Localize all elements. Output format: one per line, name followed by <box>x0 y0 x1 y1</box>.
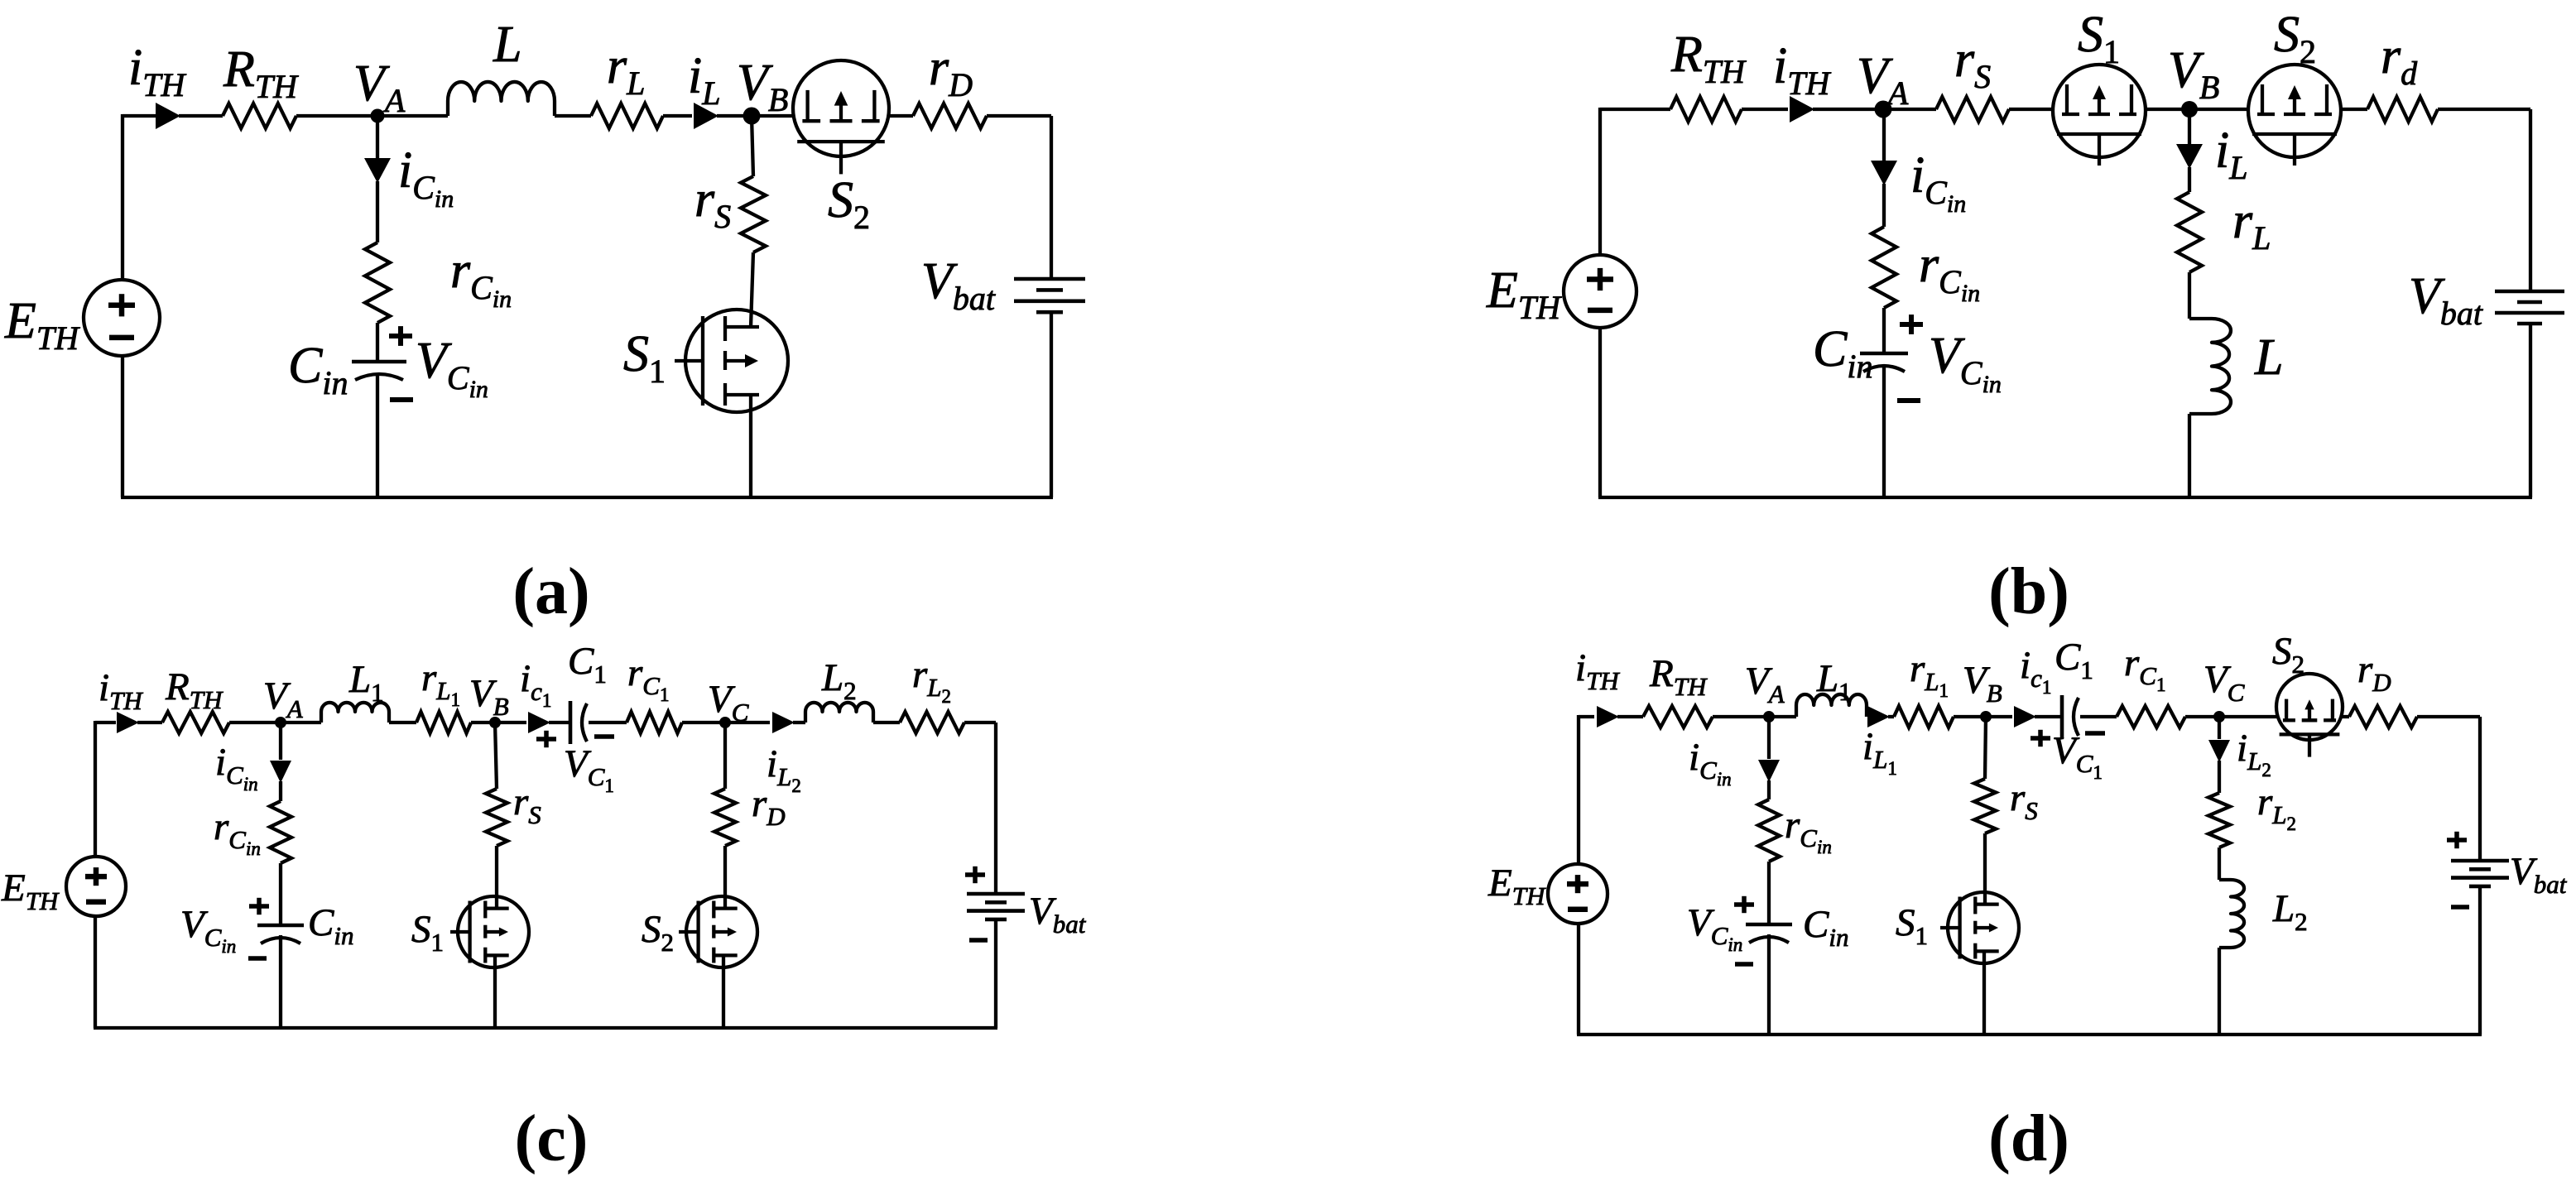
circuit (b) label r_L <box>2232 193 2271 257</box>
node V_A (d) <box>1763 711 1775 723</box>
circuit (c) label r_Cin <box>214 805 261 859</box>
circuit (d) wire: r_D to top-right corner <box>2417 715 2480 718</box>
circuit (d) wire: node C down <box>2218 717 2221 739</box>
circuit (d) label r_D <box>2357 648 2391 697</box>
circuit (c) label E_TH <box>1 867 60 915</box>
circuit (b) wire: r_L to L <box>2188 272 2191 319</box>
resistor r_S (c) <box>486 789 507 846</box>
resistor r_Cin (a) <box>365 242 390 323</box>
circuit (d) label L1 <box>1816 657 1852 706</box>
resistor r_L (a) <box>591 103 663 128</box>
circuit (a) wire: node A down <box>376 116 379 161</box>
circuit (b) wire: left vertical lower <box>1598 328 1602 497</box>
svg-text:L: L <box>2254 329 2283 386</box>
node V_C (c) <box>719 717 731 728</box>
circuit (b) label S1 <box>2078 7 2120 70</box>
circuit (d) label S2 <box>2272 630 2304 679</box>
resistor r_L2 (d) <box>2208 793 2230 847</box>
circuit (c) wire: arrow to R_TH <box>137 721 162 724</box>
resistor r_C1 (c) <box>627 712 682 733</box>
circuit (c) wire: r_S to S1 <box>495 846 498 907</box>
circuit (c) wire: right vertical upper <box>994 723 997 894</box>
circuit (d) wire: node B down to r_S <box>1985 717 1986 779</box>
circuit (b) label r_S <box>1954 31 1991 95</box>
circuit (b) label r_Cin <box>1919 237 1980 307</box>
circuit (c) C1 minus sign <box>594 734 614 739</box>
circuit (a) label V_A <box>353 55 406 119</box>
circuit (a) wire: top-left segment <box>123 114 156 118</box>
circuit (d) label r_S <box>2010 776 2038 825</box>
circuit (a) label r_L <box>607 38 645 102</box>
circuit (b) wire: node B down <box>2188 109 2191 145</box>
circuit (d) wire: left vertical lower <box>1577 924 1580 1035</box>
circuit (a) label r_Cin <box>450 242 512 313</box>
circuit (c) label i_L2 <box>767 742 801 796</box>
svg-text:(a): (a) <box>512 555 589 628</box>
circuit (d) current arrow i_c1 <box>2014 706 2036 727</box>
resistor R_TH (b) <box>1670 97 1742 122</box>
circuit (c) label i_TH <box>99 666 143 715</box>
circuit (c) label V_C <box>708 678 749 727</box>
capacitor C_in (c) <box>257 925 304 943</box>
node V_B (b) <box>2181 101 2198 118</box>
source E_TH (d) <box>1548 864 1608 924</box>
resistor r_D (c) <box>714 789 736 846</box>
circuit (c) label L1 <box>348 658 384 707</box>
circuit (b) wire: right vertical upper <box>2529 109 2532 291</box>
inductor L (a) <box>448 82 555 116</box>
circuit (d) wire: r_Cin to C_in <box>1767 862 1771 924</box>
circuit (c) wire: top-left segment <box>95 721 116 724</box>
resistor r_S (d) <box>1974 779 1996 833</box>
transistor S1 (c) MOSFET <box>450 896 529 967</box>
circuit (a) label V_bat <box>921 253 996 317</box>
circuit (b) label i_Cin <box>1910 147 1966 218</box>
circuit (a) wire: node B to S2 <box>752 114 794 118</box>
circuit (b) label C_in <box>1813 321 1872 385</box>
circuit (a) wire: arrow to R_TH <box>179 114 223 118</box>
inductor L1 (d) <box>1796 694 1867 717</box>
circuit (a) wire: r_S to S1 <box>751 252 753 327</box>
source E_TH (c) <box>66 857 126 916</box>
circuit (a) wire: R_TH to node A <box>296 114 377 118</box>
circuit (a) C_in minus sign <box>390 397 413 402</box>
circuit (d) current arrow i_L1 <box>1867 706 1890 727</box>
circuit (d) wire: C_in to bottom <box>1767 934 1771 1035</box>
circuit (d) wire: L2 to bottom <box>2218 948 2221 1035</box>
transistor S2 (c) MOSFET <box>679 896 757 967</box>
circuit (c) current arrow i_L2 <box>772 712 795 733</box>
circuit (c) wire: left vertical lower <box>94 916 97 1028</box>
resistor r_S (b) <box>1936 97 2009 122</box>
battery V_bat (c) <box>967 894 1025 919</box>
node V_A (a) <box>371 109 385 123</box>
circuit (d) wire: r_L2 to L2 <box>2218 847 2221 880</box>
circuit (d) label i_TH <box>1575 646 1620 695</box>
circuit (c) current arrow i_TH <box>117 712 139 733</box>
resistor r_L2 (c) <box>900 712 964 733</box>
circuit (b) wire: top-left segment <box>1600 108 1670 111</box>
resistor R_TH (c) <box>162 712 229 733</box>
transistor S1 (a) MOSFET <box>675 310 788 412</box>
circuit (a) label i_L <box>688 48 720 112</box>
circuit (a) label S1 <box>623 326 666 390</box>
circuit (b) label V_A <box>1857 48 1909 112</box>
circuit (d) wire: arrow to R_TH <box>1617 715 1643 718</box>
circuit (d) wire: C1 to r_C1 <box>2080 715 2117 718</box>
circuit (a) label V_B <box>737 55 788 118</box>
circuit (c) C_in minus sign <box>248 956 267 961</box>
circuit (b) current arrow i_TH <box>1790 96 1814 122</box>
circuit (a) wire: S2 to r_D <box>888 114 913 118</box>
circuit (d) bottom wire <box>1577 1033 2482 1036</box>
circuit (c) label r_S <box>513 780 541 829</box>
circuit (b) wire: arrow to r_L <box>2188 167 2191 192</box>
svg-text:L: L <box>493 17 521 73</box>
circuit (c) label V_B <box>469 672 509 721</box>
circuit (d) label i_L1 <box>1862 725 1897 779</box>
circuit (a) current arrow i_L <box>694 103 718 129</box>
circuit (c) wire: node B down to r_S <box>495 723 497 789</box>
circuit (a) wire: arrow to node B <box>717 114 752 118</box>
circuit (c) battery plus sign <box>965 867 985 883</box>
circuit (d) label C1 <box>2055 636 2093 684</box>
circuit (c) wire: node C down to r_D <box>723 723 727 789</box>
circuit (a) wire: node B down to r_S <box>752 116 753 176</box>
circuit (b) label S2 <box>2274 7 2316 70</box>
caption (a) <box>512 555 589 628</box>
circuit (a) wire: left vertical upper <box>121 114 124 280</box>
circuit (a) wire: r_Cin to C_in <box>376 323 379 362</box>
circuit (b) wire: node A down <box>1882 109 1886 161</box>
circuit (b) wire: r_S to S1 <box>2009 108 2054 111</box>
transistor S2 (b) MOSFET <box>2248 65 2341 166</box>
svg-text:(d): (d) <box>1988 1102 2069 1175</box>
circuit (c) label r_D <box>752 782 786 831</box>
circuit (a) label L <box>493 17 521 73</box>
circuit (c) wire: C_in to bottom <box>279 935 282 1028</box>
transistor S2 (d) MOSFET <box>2276 674 2343 757</box>
circuit (a) wire: left vertical lower <box>121 356 124 497</box>
circuit (d) wire: r_C1 to node C <box>2185 715 2219 718</box>
circuit (d) label r_L2 <box>2257 780 2296 834</box>
circuit (c) label S1 <box>411 908 444 957</box>
circuit (a) label C_in <box>288 338 348 401</box>
circuit (d) label V_bat <box>2510 850 2568 899</box>
resistor r_Cin (c) <box>270 801 291 863</box>
circuit (c) wire: L2 to r_L2 <box>873 721 900 724</box>
circuit (d) wire: left vertical upper <box>1577 715 1580 864</box>
circuit (d) wire: S1 to bottom <box>1982 951 1986 1035</box>
circuit (d) wire: node C to S2 <box>2219 715 2277 718</box>
circuit (a) current arrow i_Cin <box>364 158 391 183</box>
circuit (b) label i_L <box>2215 122 2247 186</box>
circuit (b) wire: r_Cin to C_in <box>1882 308 1886 353</box>
circuit (c) label S2 <box>642 908 674 957</box>
circuit (d) wire: r_L1 to node B <box>1954 715 1986 718</box>
circuit (c) bottom wire <box>94 1026 997 1030</box>
circuit (c) label V_bat <box>1029 890 1087 939</box>
circuit (d) label C_in <box>1803 903 1848 952</box>
inductor L1 (c) <box>321 703 389 723</box>
svg-text:(c): (c) <box>515 1102 589 1175</box>
capacitor C_in (b) <box>1860 353 1908 372</box>
circuit (c) wire: right vertical lower <box>994 919 997 1028</box>
node V_A (c) <box>275 717 286 728</box>
circuit (d) label V_C1 <box>2052 729 2103 783</box>
circuit (a) label V_Cin <box>416 333 488 403</box>
circuit (d) label L2 <box>2272 887 2308 936</box>
circuit (b) label R_TH <box>1670 26 1747 90</box>
circuit (b) bottom wire <box>1598 496 2532 499</box>
circuit (c) wire: r_L1 to node B <box>471 721 495 724</box>
circuit (c) label V_Cin <box>180 903 236 957</box>
circuit (d) wire: right vertical upper <box>2478 717 2482 861</box>
circuit (b) label V_bat <box>2409 268 2483 332</box>
circuit (c) label V_C1 <box>564 742 614 796</box>
transistor S1 (d) MOSFET <box>1940 892 2019 963</box>
circuit (d) battery plus sign <box>2447 832 2467 848</box>
circuit (d) wire: arrow to r_L1 <box>1888 715 1894 718</box>
circuit (a) label S2 <box>828 172 870 236</box>
circuit (d) label E_TH <box>1487 862 1546 910</box>
transistor S2 (a) MOSFET <box>793 60 889 174</box>
circuit (c) label r_L1 <box>421 656 460 710</box>
circuit (d) C_in minus sign <box>1735 962 1753 967</box>
circuit (d) wire: arrow to C1 <box>2035 715 2062 718</box>
circuit (a) wire: C_in to bottom <box>376 374 379 497</box>
circuit (a) wire: node A to L <box>377 114 448 118</box>
circuit (d) label V_Cin <box>1687 901 1742 955</box>
circuit (d) wire: R_TH to node A <box>1713 715 1769 718</box>
resistor r_L1 (d) <box>1894 706 1954 727</box>
caption (b) <box>1988 555 2069 628</box>
resistor r_Cin (d) <box>1758 799 1780 862</box>
resistor R_TH (d) <box>1643 706 1713 727</box>
circuit (d) current arrow i_L2 <box>2208 740 2230 762</box>
svg-text:(b): (b) <box>1988 555 2069 628</box>
circuit (c) wire: C1 to r_C1 <box>589 721 627 724</box>
node V_A (b) <box>1875 101 1892 118</box>
inductor L (b) <box>2189 319 2231 414</box>
circuit (c) wire: node A to L1 <box>281 721 321 724</box>
circuit (a) wire: arrow to r_Cin <box>376 181 379 242</box>
circuit (c) wire: r_C1 to node C <box>682 721 725 724</box>
circuit (c) wire: S1 to bottom <box>493 955 497 1028</box>
circuit (a) wire: right vertical upper <box>1050 116 1053 279</box>
circuit (d) wire: node A to L1 <box>1769 715 1796 718</box>
caption (d) <box>1988 1102 2069 1175</box>
circuit (d) wire: arrow to r_L2 <box>2218 761 2221 793</box>
circuit (a) C_in plus sign <box>389 326 412 346</box>
circuit (b) label E_TH <box>1486 262 1562 326</box>
circuit (d) wire: S2 to r_D <box>2342 715 2349 718</box>
circuit (c) wire: node A down <box>279 723 282 760</box>
circuit (c) label i_Cin <box>215 741 258 795</box>
battery V_bat (b) <box>2495 291 2564 324</box>
node V_C (d) <box>2213 711 2225 723</box>
circuit (a) bottom wire <box>121 496 1053 499</box>
circuit (c) wire: arrow to C1 <box>549 721 570 724</box>
circuit (a) wire: r_D to top-right corner <box>987 114 1051 118</box>
circuit (c) wire: S2 to bottom <box>722 955 725 1028</box>
node V_B (a) <box>743 108 761 125</box>
circuit (c) label r_C1 <box>627 651 669 705</box>
circuit (b) wire: node A to r_S <box>1884 108 1936 111</box>
circuit (d) label i_L2 <box>2237 727 2271 780</box>
circuit (b) wire: node B to S2 <box>2189 108 2249 111</box>
resistor r_D (d) <box>2349 706 2417 727</box>
circuit (b) wire: right vertical lower <box>2529 324 2532 497</box>
circuit (b) wire: C_in to bottom <box>1882 365 1886 497</box>
circuit (b) C_in plus sign <box>1900 314 1923 334</box>
inductor L2 (d) <box>2219 880 2244 948</box>
resistor r_L (b) <box>2177 192 2202 272</box>
circuit (c) C1 plus sign <box>536 731 556 747</box>
caption (c) <box>515 1102 589 1175</box>
circuit (d) wire: r_S to S1 <box>1983 833 1987 903</box>
resistor r_D (a) <box>913 103 987 128</box>
resistor R_TH (a) <box>223 103 296 128</box>
circuit (d) wire: arrow to r_Cin <box>1767 780 1771 799</box>
circuit (a) label r_D <box>929 40 973 103</box>
circuit (c) wire: arrow to L2 <box>793 721 805 724</box>
circuit (b) wire: arrow to r_Cin <box>1882 184 1886 227</box>
circuit (c) wire: node B to arrow <box>495 721 526 724</box>
circuit (d) C_in plus sign <box>1734 896 1754 913</box>
circuit (c) label r_L2 <box>912 653 951 707</box>
circuit (a) wire: L to r_L <box>555 114 591 118</box>
circuit (c) battery minus sign <box>969 938 988 943</box>
circuit (c) wire: R_TH to node A <box>229 721 281 724</box>
circuit (b) wire: S1 to node B <box>2145 108 2189 111</box>
circuit (b) label i_TH <box>1773 38 1831 102</box>
circuit (c) wire: r_D to S2 <box>723 846 727 907</box>
battery V_bat (a) <box>1014 279 1085 312</box>
circuit (a) label i_TH <box>128 40 186 103</box>
node V_B (d) <box>1980 711 1992 723</box>
circuit (d) C1 minus sign <box>2085 731 2105 736</box>
circuit (c) label i_c1 <box>520 657 551 711</box>
circuit (a) wire: r_L to arrow <box>663 114 692 118</box>
circuit (b) label V_B <box>2168 42 2219 106</box>
circuit (c) current arrow i_c1 <box>528 712 550 733</box>
circuit (b) wire: arrow to node A <box>1813 108 1884 111</box>
circuit (c) wire: node C to arrow <box>725 721 770 724</box>
circuit (b) wire: S2 to r_d <box>2340 108 2367 111</box>
capacitor C_in (a) <box>352 362 406 380</box>
circuit (b) wire: L to bottom <box>2188 414 2191 497</box>
circuit (a) label i_Cin <box>398 142 454 213</box>
circuit (c) label C_in <box>308 901 353 950</box>
circuit (d) wire: top-left segment <box>1579 715 1594 718</box>
circuit (b) C_in minus sign <box>1897 398 1920 403</box>
circuit (c) label L2 <box>821 656 857 705</box>
circuit (c) wire: L1 to r_L1 <box>389 721 416 724</box>
circuit (c) label C1 <box>568 640 607 689</box>
circuit (d) label r_L1 <box>1910 647 1949 701</box>
circuit (c) wire: r_L2 to top-right corner <box>964 721 996 724</box>
resistor r_d (b) <box>2367 97 2438 122</box>
circuit (c) wire: r_Cin to C_in <box>279 863 282 925</box>
resistor r_S (a) <box>741 176 766 252</box>
circuit (a) label R_TH <box>223 41 299 105</box>
capacitor C1 (c) <box>570 701 587 744</box>
circuit (a) label E_TH <box>4 293 80 357</box>
circuit (a) wire: S1 to bottom <box>749 395 752 497</box>
battery V_bat (d) <box>2451 861 2509 886</box>
resistor r_C1 (d) <box>2117 706 2185 727</box>
circuit (c) C_in plus sign <box>249 898 269 915</box>
circuit (b) wire: r_d to top-right corner <box>2438 108 2530 111</box>
circuit (b) label r_d <box>2381 28 2418 92</box>
circuit (d) label r_Cin <box>1785 804 1832 857</box>
circuit (c) label V_A <box>263 675 304 723</box>
circuit (a) label r_S <box>694 171 731 235</box>
circuit (d) current arrow i_Cin <box>1758 760 1780 782</box>
resistor r_Cin (b) <box>1872 227 1896 308</box>
circuit (c) current arrow i_Cin <box>270 761 291 783</box>
inductor L2 (c) <box>805 703 873 723</box>
circuit (b) current arrow i_L <box>2176 144 2203 169</box>
circuit (d) current arrow i_TH <box>1597 706 1619 727</box>
circuit (c) label R_TH <box>165 665 223 714</box>
circuit (d) wire: node A down <box>1767 717 1771 759</box>
node V_B (c) <box>489 717 501 728</box>
transistor S1 (b) MOSFET <box>2053 65 2146 166</box>
circuit (b) current arrow i_Cin <box>1871 161 1897 185</box>
circuit (d) label R_TH <box>1649 652 1708 701</box>
circuit (d) label V_A <box>1745 660 1785 708</box>
circuit (b) label V_Cin <box>1929 328 2002 398</box>
circuit (c) wire: arrow to r_Cin <box>279 781 282 801</box>
circuit (d) wire: node B to arrow <box>1986 715 2012 718</box>
source E_TH (a) <box>84 280 160 356</box>
circuit (a) wire: right vertical lower <box>1050 312 1053 497</box>
circuit (d) label S1 <box>1896 901 1928 950</box>
circuit (a) current arrow i_TH <box>156 103 180 129</box>
circuit (d) battery minus sign <box>2451 905 2469 910</box>
circuit (d) wire: right vertical lower <box>2478 886 2482 1035</box>
resistor r_L1 (c) <box>416 712 471 733</box>
circuit (d) label r_C1 <box>2124 641 2165 695</box>
circuit (d) C1 plus sign <box>2031 730 2050 747</box>
circuit (d) label V_B <box>1963 659 2002 708</box>
circuit (b) wire: R_TH to arrow <box>1742 108 1788 111</box>
circuit (b) label L <box>2254 329 2283 386</box>
circuit (b) wire: left vertical upper <box>1598 108 1602 255</box>
circuit (c) wire: left vertical upper <box>94 721 97 857</box>
source E_TH (b) <box>1564 255 1636 328</box>
capacitor C1 (d) <box>2062 695 2079 738</box>
circuit (d) label i_Cin <box>1689 736 1732 790</box>
circuit (d) label i_c1 <box>2020 644 2051 698</box>
circuit (d) label V_C <box>2204 658 2245 707</box>
capacitor C_in (d) <box>1746 924 1792 943</box>
